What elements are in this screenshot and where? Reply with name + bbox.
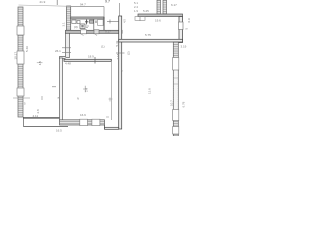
svg-text:(2): (2): [127, 51, 131, 55]
svg-text:2.18: 2.18: [116, 53, 120, 59]
svg-text:5.25: 5.25: [143, 9, 149, 13]
svg-text:5.75: 5.75: [145, 33, 151, 37]
svg-text:4.48: 4.48: [65, 61, 71, 65]
svg-text:1.9: 1.9: [134, 9, 138, 13]
svg-text:4.5: 4.5: [122, 19, 126, 23]
svg-text:10.17: 10.17: [14, 52, 18, 60]
svg-text:3.19: 3.19: [181, 45, 187, 49]
svg-text:N: N: [77, 97, 79, 101]
svg-text:94.7: 94.7: [80, 2, 86, 6]
svg-text:16.9: 16.9: [80, 113, 86, 117]
svg-text:9.17: 9.17: [105, 30, 111, 34]
svg-text:(1): (1): [101, 45, 105, 49]
svg-text:26.1: 26.1: [55, 49, 61, 53]
svg-text:16.5: 16.5: [56, 129, 62, 133]
svg-text:6.78: 6.78: [182, 101, 186, 107]
svg-text:5.43: 5.43: [115, 40, 119, 46]
svg-text:21.9: 21.9: [40, 0, 46, 4]
svg-text:3.1: 3.1: [62, 22, 66, 27]
svg-text:(3): (3): [74, 25, 78, 29]
svg-text:19.6: 19.6: [155, 19, 161, 23]
svg-text:13.8: 13.8: [148, 88, 152, 94]
svg-text:2.8: 2.8: [36, 109, 40, 114]
svg-text:0.9: 0.9: [187, 18, 191, 23]
svg-text:10.7: 10.7: [169, 100, 173, 106]
svg-text:4.11: 4.11: [33, 114, 39, 118]
svg-text:5.49: 5.49: [25, 46, 29, 52]
svg-text:9.7: 9.7: [105, 0, 110, 4]
svg-text:2.4: 2.4: [85, 88, 89, 92]
svg-text:6.17: 6.17: [171, 3, 177, 7]
svg-text:18.9: 18.9: [88, 55, 94, 59]
